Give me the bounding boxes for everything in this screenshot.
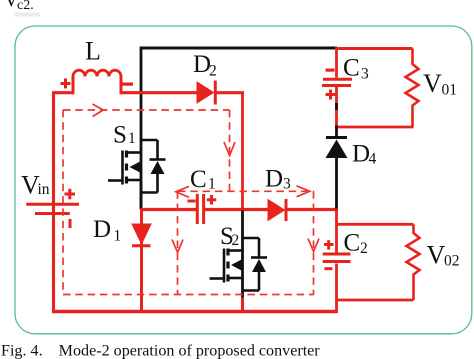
wire: left rail from top wire through Vin to bottom	[52, 92, 55, 312]
svg-text:1: 1	[208, 176, 216, 193]
wire: D3 cathode to D4/C2 node	[286, 208, 338, 211]
svg-text:D: D	[265, 166, 283, 193]
current arrow left (into C1 branch)	[176, 186, 189, 197]
wire: red vertical from D2 node down to C1/D3 node	[241, 93, 244, 211]
polarity - of L	[122, 83, 133, 86]
wire: S1 source to lower red node	[140, 182, 143, 210]
polarity - of C1	[188, 200, 196, 203]
svg-text:01: 01	[442, 82, 458, 99]
wire: middle red bus S1/D1 node to C1	[141, 208, 196, 211]
current arrow down (right branch)	[308, 239, 319, 252]
inductor L	[73, 70, 121, 94]
svg-text:L: L	[85, 37, 101, 66]
svg-text:4: 4	[369, 151, 377, 168]
svg-text:3: 3	[283, 176, 291, 193]
label S1	[113, 122, 136, 149]
polarity - of Vin	[69, 219, 72, 228]
transistor S2 (MOSFET with body diode)	[210, 211, 268, 299]
svg-text:V: V	[427, 241, 446, 270]
diode D4	[326, 103, 348, 212]
wire: node vertical D3/D4 down to C2	[335, 209, 338, 254]
wire: bottom red rail	[52, 310, 337, 313]
wire: top of C2/V02 loop	[337, 223, 414, 226]
label C1	[190, 166, 216, 193]
svg-text:2: 2	[232, 232, 240, 249]
polarity + of C2	[324, 240, 334, 250]
capacitor C2	[323, 254, 351, 313]
polarity + of C1	[207, 195, 217, 205]
svg-text:C: C	[190, 166, 207, 193]
svg-text:1: 1	[128, 130, 136, 147]
diode D2	[197, 81, 215, 105]
diode D3	[268, 199, 286, 221]
wire: bottom of C3/V01 loop	[335, 126, 414, 129]
label D4	[352, 141, 377, 168]
label C3	[343, 55, 369, 83]
source Vin battery	[26, 204, 79, 213]
svg-text:3: 3	[361, 66, 369, 83]
wire: top-right red to V01 loop	[336, 47, 413, 50]
wire: C1 to D3 anode	[205, 208, 269, 211]
wire: D2 cathode to drop node	[215, 91, 244, 94]
label D3	[265, 166, 291, 193]
svg-text:2: 2	[360, 240, 368, 257]
label C2	[344, 230, 368, 258]
wire: top-left horizontal to inductor	[53, 91, 74, 94]
label S2	[220, 223, 239, 250]
current arrow down (left branch)	[172, 240, 183, 253]
label V02	[427, 241, 460, 270]
diode D1	[132, 209, 151, 312]
capacitor C3	[322, 47, 352, 128]
svg-text:c2.: c2.	[17, 0, 34, 13]
text fragment Vc2. (clipped paragraph above figure)	[4, 0, 40, 17]
svg-text:2: 2	[209, 63, 217, 80]
svg-text:Fig. 4. Mode-2 operation of: Fig. 4. Mode-2 operation of proposed con…	[1, 343, 320, 359]
svg-text:V: V	[423, 69, 442, 98]
label D2	[193, 51, 217, 80]
wire: inductor to D2 anode	[121, 91, 198, 94]
current arrow right (top)	[93, 104, 104, 117]
figure caption	[1, 343, 320, 359]
current arrow right (toward C2)	[297, 186, 310, 197]
svg-text:1: 1	[114, 228, 122, 245]
polarity + of C3	[326, 90, 336, 100]
transistor S1 (MOSFET with body diode)	[108, 140, 166, 193]
svg-text:C: C	[343, 55, 360, 82]
svg-text:S: S	[113, 122, 127, 149]
capacitor C1	[197, 194, 203, 224]
svg-text:D: D	[352, 141, 370, 168]
svg-text:C: C	[344, 230, 361, 257]
polarity - of C3	[326, 69, 335, 72]
label V01	[423, 69, 457, 99]
label D1	[93, 216, 121, 245]
polarity + of Vin	[65, 189, 76, 200]
resistor V02	[407, 224, 420, 300]
svg-text:D: D	[93, 216, 111, 243]
label L	[85, 37, 101, 66]
polarity + of L	[61, 78, 71, 88]
svg-text:02: 02	[444, 253, 460, 270]
resistor V01	[406, 49, 419, 128]
current arrow down (mid drop)	[224, 142, 235, 156]
wire: S1 drain vertical	[140, 47, 143, 209]
label Vin	[21, 171, 50, 200]
svg-text:in: in	[38, 181, 50, 198]
wire: S2 source red segment to bottom rail	[241, 298, 244, 312]
polarity - of C2	[324, 267, 332, 270]
wire: bottom of C2/V02 loop	[337, 299, 414, 302]
current path dashed loop (mode 2)	[63, 110, 314, 295]
wire: top black bus from S1 drain node to C3 node	[141, 47, 337, 50]
